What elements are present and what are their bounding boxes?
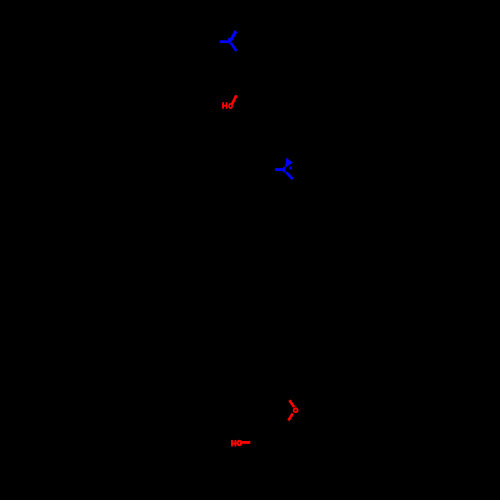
wire N2 right stub bond — [289, 167, 292, 170]
wire N1 upper-right bond (wedge) — [229, 30, 238, 42]
wire N2 lower-right bond — [286, 172, 293, 179]
node N1 label tick — [228, 38, 230, 44]
node H3 left stem — [231, 440, 233, 446]
node O1 ring — [229, 104, 232, 108]
wire N1 methyl bond (horizontal, left) — [220, 40, 230, 43]
node O3 ring — [238, 441, 242, 445]
wire O3 bond right (horizontal) — [242, 441, 250, 444]
node H3 crossbar — [231, 442, 236, 444]
node H1 crossbar — [222, 105, 227, 107]
atom N1 (tropane N-methyl nitrogen, top fragment) — [220, 38, 231, 44]
wire N2 upper-right wedge bond — [285, 158, 293, 168]
wire O2 bond down-left — [288, 413, 292, 420]
node O2 ring — [294, 408, 298, 412]
wire N2 methyl bond (horizontal, left) — [275, 168, 285, 171]
atom O3 hydroxyl HO label (bottom fragment) — [231, 440, 236, 446]
wire O2 bond up-left — [289, 400, 294, 407]
node H1 right stem — [226, 102, 228, 109]
node N2 label tick — [283, 167, 286, 172]
wire O1 bond up-right — [232, 95, 236, 104]
atom N2 (second fragment nitrogen) — [275, 158, 293, 173]
node H3 right stem — [234, 440, 236, 446]
wire N1 lower-right bond — [231, 43, 237, 51]
node H1 left stem — [222, 102, 224, 109]
atom O1 hydroxyl HO label (top fragment) — [222, 102, 227, 109]
